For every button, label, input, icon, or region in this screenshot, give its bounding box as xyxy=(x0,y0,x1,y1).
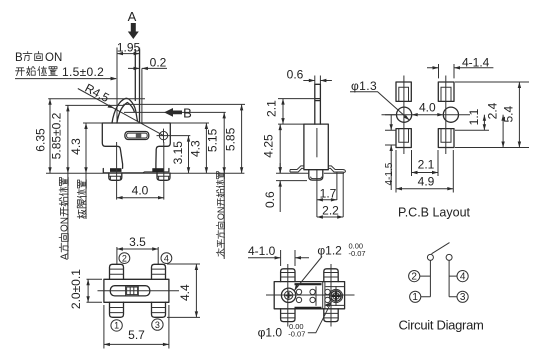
dimension 5.85 right xyxy=(241,104,243,173)
leg bottom-right xyxy=(152,302,166,317)
extension line stem step xyxy=(278,98,315,100)
boss right outer xyxy=(329,289,342,302)
svg-text:5.85±0.2: 5.85±0.2 xyxy=(50,112,64,159)
svg-text:A: A xyxy=(128,9,137,24)
svg-text:4.0: 4.0 xyxy=(132,184,149,198)
svg-text:5.4: 5.4 xyxy=(501,106,515,123)
pad bottom-right xyxy=(438,129,454,148)
reference line 6.35 top xyxy=(48,98,145,100)
extension pad top right xyxy=(455,82,529,148)
svg-text:3.5: 3.5 xyxy=(129,235,146,249)
dimension 4-1.5 left xyxy=(385,115,396,145)
svg-text:B: B xyxy=(183,106,192,121)
svg-text:-0.07: -0.07 xyxy=(349,249,366,258)
side body xyxy=(304,124,328,170)
boss left inner xyxy=(284,291,292,299)
svg-text:2.0±0.1: 2.0±0.1 xyxy=(69,269,83,309)
seating line xyxy=(276,172,344,174)
svg-text:0.6: 0.6 xyxy=(287,68,304,82)
terminal 2 xyxy=(409,271,420,282)
center mark cross xyxy=(157,129,191,143)
terminal number 4 xyxy=(161,253,172,264)
svg-text:2.1: 2.1 xyxy=(265,100,279,117)
svg-text:φ1.3: φ1.3 xyxy=(351,79,377,93)
switch contact right xyxy=(446,254,452,260)
centerline horizontal xyxy=(266,294,355,296)
svg-text:Circuit Diagram: Circuit Diagram xyxy=(398,318,483,333)
svg-text:A: A xyxy=(60,253,71,260)
svg-text:1: 1 xyxy=(114,321,119,331)
leg centerline left xyxy=(116,142,118,200)
centerline left column xyxy=(403,76,405,155)
svg-text:6.35: 6.35 xyxy=(34,128,48,152)
terminal number 3 xyxy=(152,319,163,330)
front leg right xyxy=(157,173,170,180)
pad top-right xyxy=(438,82,454,101)
extension line tab right outer xyxy=(342,174,344,218)
hole right xyxy=(443,107,458,122)
dimension 2.1 bottom xyxy=(412,150,439,176)
dimension 4.9 bottom xyxy=(396,150,453,193)
body inner dividers xyxy=(323,282,325,309)
extension of 5.15 line downward xyxy=(223,173,225,259)
body centerline horizontal xyxy=(98,290,180,292)
extension of 4.3 line downward xyxy=(85,173,87,219)
slot knob xyxy=(136,133,142,138)
label 水平方向ON开始位置 vertical xyxy=(216,171,226,256)
leg top-left xyxy=(110,264,124,279)
leg bottom-right xyxy=(324,309,338,322)
centerline below boss xyxy=(316,170,318,217)
dimension 0.2 arrows xyxy=(128,67,167,69)
knob hatch xyxy=(127,287,138,295)
extension line body-top right xyxy=(170,122,209,124)
extension line ON-start position xyxy=(116,48,118,124)
center mark circle xyxy=(159,131,167,139)
slot outer xyxy=(125,132,149,140)
svg-text:4.25: 4.25 xyxy=(262,134,276,158)
side body centerline xyxy=(316,128,318,157)
lever stem left edge xyxy=(134,50,136,101)
svg-text:2: 2 xyxy=(411,271,417,282)
stem extension lines xyxy=(315,76,321,85)
extension line stem right xyxy=(139,48,141,69)
label 极限位置 vertical xyxy=(77,180,86,219)
switch contact left xyxy=(427,254,433,260)
lever stem right edge xyxy=(139,50,141,124)
front body outline xyxy=(102,123,170,168)
sub divider xyxy=(315,286,317,305)
direction-B solid arrow xyxy=(164,108,182,117)
dimension 3.15 right xyxy=(188,136,190,174)
dimension 5.7 xyxy=(104,305,169,349)
switch lever xyxy=(432,243,450,254)
hole left xyxy=(397,107,412,122)
leg top-right xyxy=(324,269,338,282)
right circle centerline xyxy=(335,286,337,306)
svg-text:B: B xyxy=(15,52,23,64)
extension line body-top left xyxy=(83,122,102,124)
svg-text:4: 4 xyxy=(164,253,169,263)
pad bottom-left xyxy=(396,129,411,148)
svg-text:5.15: 5.15 xyxy=(206,128,220,152)
reference line B y112 xyxy=(124,111,226,113)
svg-text:4.4: 4.4 xyxy=(178,284,192,301)
side stem xyxy=(315,84,321,124)
svg-text:4.3: 4.3 xyxy=(189,140,203,157)
svg-text:3.15: 3.15 xyxy=(171,141,185,165)
svg-text:-0.07: -0.07 xyxy=(288,329,305,338)
boss bottom line ref xyxy=(276,180,307,182)
boss left outer xyxy=(281,288,295,302)
lever wing outer arc xyxy=(112,98,137,123)
boss below body xyxy=(309,170,323,180)
centerline right column xyxy=(330,264,332,327)
svg-text:4.9: 4.9 xyxy=(418,175,435,189)
slot inner xyxy=(127,133,148,138)
dimension 0.6 arrows xyxy=(303,80,332,82)
svg-text:5.7: 5.7 xyxy=(128,328,145,342)
front body base line xyxy=(103,169,169,173)
contact pad right (black) xyxy=(152,168,164,172)
wire right xyxy=(449,260,457,296)
dimension 5.4 xyxy=(518,82,520,148)
top view slot xyxy=(110,286,150,296)
label A方向ON开始位置 vertical xyxy=(59,177,71,260)
svg-text:ON: ON xyxy=(45,52,62,64)
dimension 5.15 right xyxy=(223,112,225,173)
leg top-left xyxy=(281,269,295,282)
terminal number 1 xyxy=(111,320,122,331)
dimension 4.3 left xyxy=(85,123,87,173)
centerline right column xyxy=(445,76,447,155)
dimension 2.1 xyxy=(282,99,284,125)
dimension 2.4 xyxy=(502,115,504,148)
svg-text:1.5±0.2: 1.5±0.2 xyxy=(62,65,104,79)
svg-text:3: 3 xyxy=(155,320,160,330)
wire left xyxy=(420,260,430,296)
svg-text:1.95: 1.95 xyxy=(117,41,141,55)
svg-text:0.6: 0.6 xyxy=(263,191,277,208)
dimension 0.6 bottom-left xyxy=(279,163,281,212)
label 开始位置 1.5±0.2 xyxy=(16,68,25,76)
svg-text:3: 3 xyxy=(460,292,466,303)
centerline left column xyxy=(287,264,289,327)
svg-text:2: 2 xyxy=(122,253,127,263)
leg bottom-left xyxy=(110,302,124,317)
boss right inner xyxy=(333,293,339,299)
dimension 4.4 right xyxy=(167,264,200,317)
svg-text:2.4: 2.4 xyxy=(485,102,499,119)
terminal number 2 xyxy=(119,253,130,264)
direction-A solid arrow xyxy=(128,23,139,39)
extension line tab right inner xyxy=(336,172,338,200)
leg bottom-left xyxy=(281,309,295,322)
dimension 4.3 right xyxy=(205,123,207,173)
extension line body top left xyxy=(278,123,304,125)
svg-text:ON: ON xyxy=(60,217,71,232)
svg-text:4.3: 4.3 xyxy=(69,138,83,155)
terminal 4 xyxy=(457,271,468,282)
right section inner lines xyxy=(326,287,345,306)
top view body xyxy=(104,279,169,302)
dimension 1.1 xyxy=(483,115,485,131)
lever wing inner arc xyxy=(117,103,134,124)
dimension line 1.95 xyxy=(117,53,140,55)
bottom view body xyxy=(274,282,344,309)
dimension 6.35 left xyxy=(49,99,51,174)
leg top-right xyxy=(152,264,166,279)
terminal 1 xyxy=(410,291,421,302)
small holes xyxy=(296,289,330,302)
dimension 4.25 xyxy=(279,124,281,173)
svg-text:4.0: 4.0 xyxy=(419,101,436,115)
svg-text:0.2: 0.2 xyxy=(150,55,167,69)
side tab left xyxy=(290,166,304,172)
leader R4.5 with arrow xyxy=(78,89,164,136)
reference line top-right y104 xyxy=(123,103,245,105)
svg-text:φ1.2: φ1.2 xyxy=(317,244,342,258)
boss left cross xyxy=(285,292,291,298)
svg-text:4: 4 xyxy=(460,271,466,282)
svg-text:φ1.0: φ1.0 xyxy=(258,325,283,339)
centerline horizontal xyxy=(382,114,471,116)
line lever rest position xyxy=(141,68,143,123)
svg-text:1: 1 xyxy=(412,292,418,303)
extension of 5.85 line downward xyxy=(67,173,69,259)
dimension 5.85±0.2 left xyxy=(67,105,69,173)
front leg left xyxy=(109,173,122,180)
contact pad left (black) xyxy=(110,168,122,172)
leg centerline right xyxy=(163,142,165,200)
pad top-left xyxy=(396,82,411,101)
terminal 3 xyxy=(457,291,468,302)
svg-text:P.C.B Layout: P.C.B Layout xyxy=(398,206,471,220)
svg-text:5.85: 5.85 xyxy=(224,127,238,151)
side tab right xyxy=(328,166,345,172)
boss right cross xyxy=(332,292,341,301)
svg-text:2.2: 2.2 xyxy=(322,204,339,218)
inner contact bars (dark) xyxy=(295,284,322,308)
reference line 5.85 top xyxy=(65,104,123,106)
svg-text:1.1: 1.1 xyxy=(467,108,481,125)
dimension 2.0±0.1 xyxy=(87,279,103,302)
seating plane line xyxy=(46,172,244,174)
svg-text:2.1: 2.1 xyxy=(418,158,435,172)
leader line with arrow to ON-start line xyxy=(15,78,116,80)
svg-text:4-1.0: 4-1.0 xyxy=(248,244,276,258)
svg-text:4-1.5: 4-1.5 xyxy=(384,162,395,185)
slot dividers xyxy=(126,286,139,296)
